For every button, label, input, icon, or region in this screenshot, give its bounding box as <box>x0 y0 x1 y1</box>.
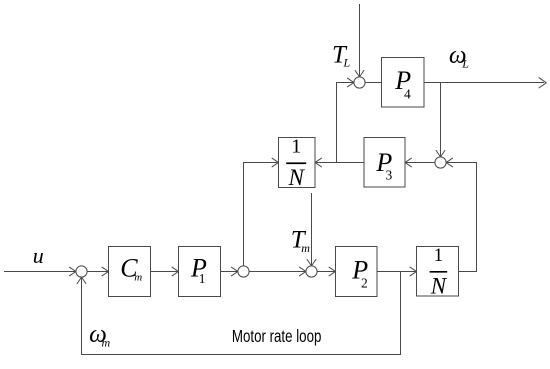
svg-text:4: 4 <box>404 86 411 101</box>
svg-text:1: 1 <box>434 245 444 266</box>
svg-text:N: N <box>430 273 448 298</box>
svg-text:3: 3 <box>386 168 393 183</box>
svg-text:2: 2 <box>361 276 368 291</box>
svg-text:m: m <box>301 241 310 255</box>
svg-text:Motor rate loop: Motor rate loop <box>232 326 322 346</box>
svg-text:m: m <box>102 336 111 350</box>
svg-text:L: L <box>461 56 469 70</box>
svg-text:1: 1 <box>199 271 206 286</box>
svg-text:1: 1 <box>291 135 301 157</box>
svg-text:L: L <box>343 56 351 70</box>
svg-text:N: N <box>288 165 306 190</box>
svg-text:m: m <box>134 272 142 284</box>
svg-text:u: u <box>33 243 44 268</box>
